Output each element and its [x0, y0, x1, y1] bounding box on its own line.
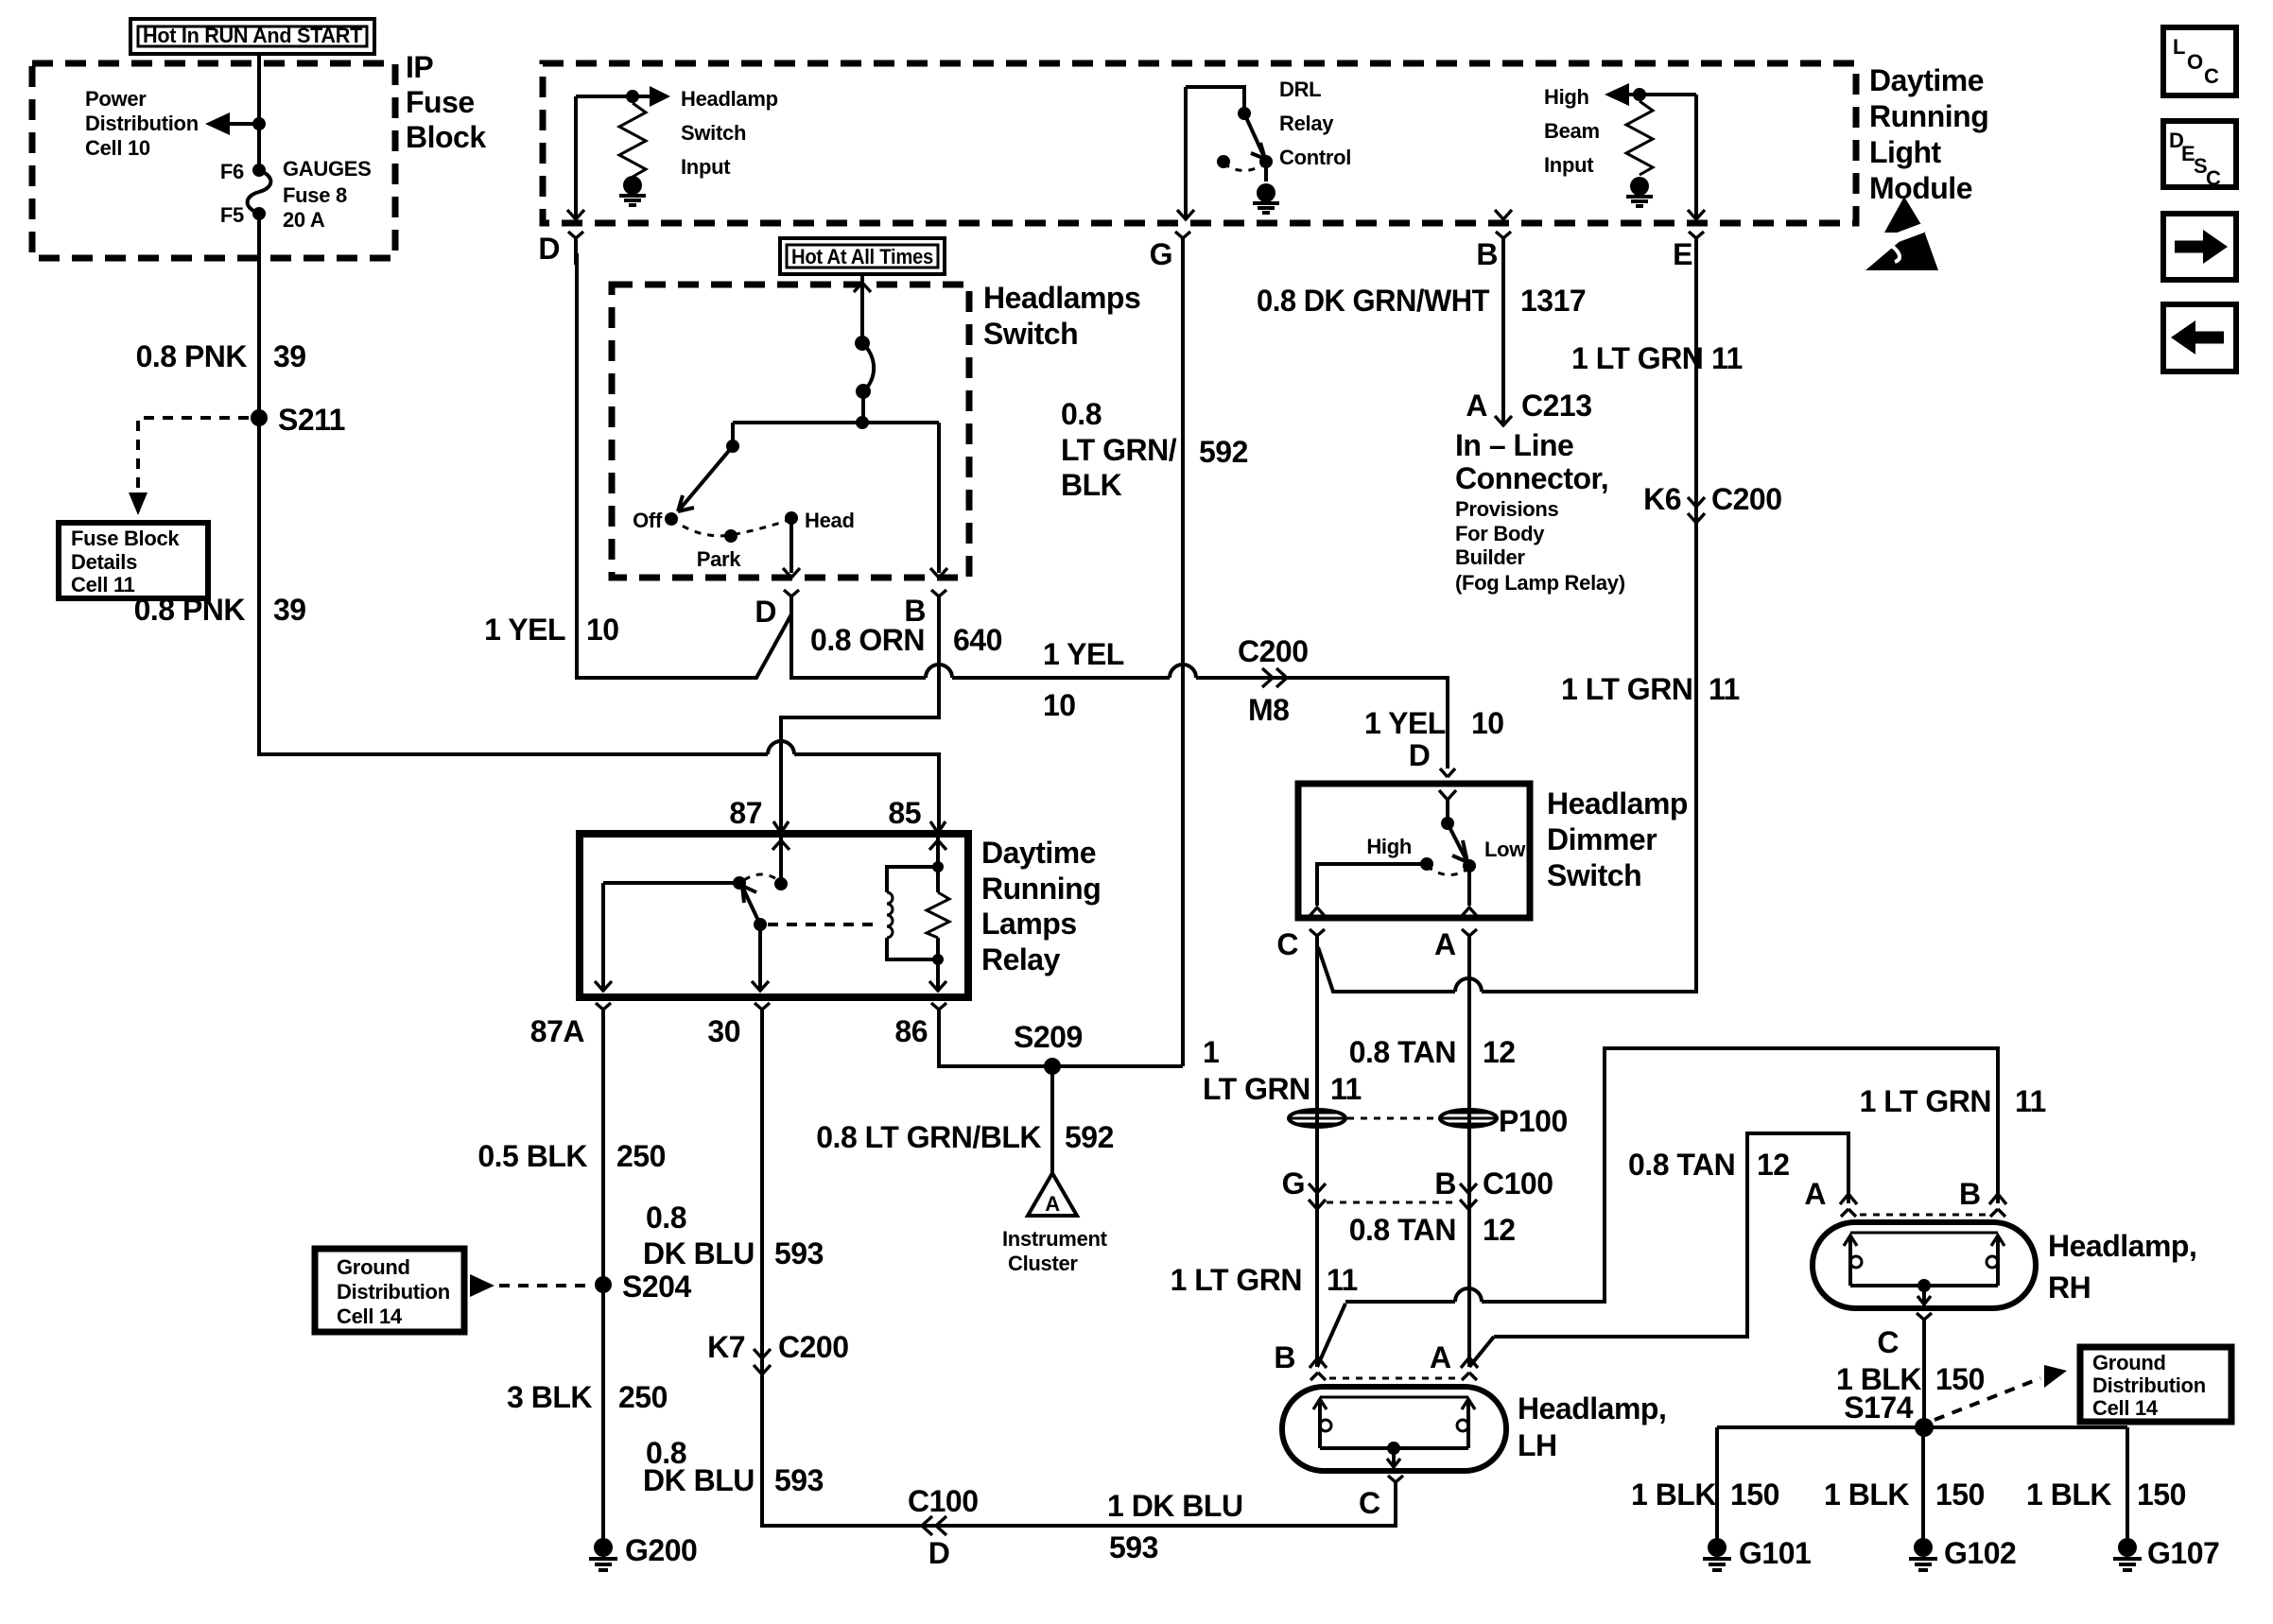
svg-text:85: 85: [888, 796, 921, 830]
svg-text:Block: Block: [406, 120, 486, 154]
svg-text:Input: Input: [681, 155, 731, 179]
svg-text:C200: C200: [1238, 634, 1309, 668]
svg-text:LT GRN: LT GRN: [1203, 1072, 1310, 1106]
svg-text:Switch: Switch: [983, 317, 1078, 351]
svg-text:0.8 TAN: 0.8 TAN: [1349, 1035, 1456, 1069]
svg-text:1 LT GRN: 1 LT GRN: [1860, 1084, 1991, 1118]
svg-text:Relay: Relay: [1279, 112, 1334, 135]
svg-text:LT GRN/: LT GRN/: [1061, 433, 1177, 467]
svg-text:C: C: [1276, 927, 1298, 961]
svg-text:Cell 14: Cell 14: [337, 1304, 403, 1328]
svg-text:C200: C200: [778, 1330, 849, 1364]
svg-text:250: 250: [616, 1139, 666, 1173]
svg-text:592: 592: [1065, 1120, 1114, 1154]
svg-text:30: 30: [707, 1014, 740, 1048]
svg-text:P100: P100: [1499, 1104, 1568, 1138]
svg-text:593: 593: [1109, 1530, 1158, 1564]
svg-text:C: C: [1877, 1325, 1899, 1359]
svg-text:150: 150: [2137, 1477, 2186, 1512]
svg-text:C100: C100: [908, 1484, 979, 1518]
svg-text:Running: Running: [981, 872, 1101, 906]
svg-text:593: 593: [774, 1463, 824, 1497]
svg-text:1317: 1317: [1520, 284, 1586, 318]
svg-text:Distribution: Distribution: [2092, 1373, 2206, 1397]
svg-text:10: 10: [1043, 688, 1076, 722]
svg-text:0.8 ORN: 0.8 ORN: [810, 623, 925, 657]
svg-text:LH: LH: [1518, 1428, 1557, 1462]
svg-text:150: 150: [1935, 1362, 1985, 1396]
svg-text:1 YEL: 1 YEL: [484, 613, 565, 647]
svg-text:Daytime: Daytime: [1869, 63, 1984, 97]
svg-text:G200: G200: [625, 1533, 697, 1567]
svg-text:11: 11: [1330, 1072, 1362, 1106]
svg-text:0.8 TAN: 0.8 TAN: [1628, 1148, 1735, 1182]
svg-text:Fuse Block: Fuse Block: [71, 527, 180, 550]
svg-text:1: 1: [1203, 1035, 1219, 1069]
svg-text:1 BLK: 1 BLK: [2026, 1477, 2111, 1512]
svg-text:11: 11: [1327, 1263, 1358, 1297]
svg-text:12: 12: [1483, 1213, 1516, 1247]
svg-text:Control: Control: [1279, 146, 1351, 169]
svg-text:Distribution: Distribution: [85, 112, 199, 135]
svg-text:S204: S204: [622, 1270, 691, 1304]
svg-text:Lamps: Lamps: [981, 907, 1077, 941]
svg-text:1 LT GRN: 1 LT GRN: [1571, 341, 1703, 375]
svg-text:Headlamp: Headlamp: [681, 87, 778, 111]
svg-text:Fuse: Fuse: [406, 85, 475, 119]
svg-text:D: D: [928, 1536, 950, 1570]
svg-text:G107: G107: [2147, 1536, 2219, 1570]
svg-text:C200: C200: [1711, 482, 1782, 516]
svg-text:Park: Park: [697, 547, 742, 571]
svg-text:11: 11: [2015, 1084, 2046, 1118]
svg-text:Hot At All Times: Hot At All Times: [791, 245, 933, 268]
svg-text:B: B: [1434, 1166, 1456, 1201]
svg-text:0.8 LT GRN/BLK: 0.8 LT GRN/BLK: [816, 1120, 1041, 1154]
svg-text:BLK: BLK: [1061, 468, 1122, 502]
svg-text:12: 12: [1483, 1035, 1516, 1069]
svg-text:Module: Module: [1869, 171, 1972, 205]
svg-text:B: B: [1959, 1177, 1981, 1211]
svg-text:DK BLU: DK BLU: [643, 1236, 755, 1270]
svg-text:High: High: [1544, 85, 1589, 109]
svg-text:86: 86: [894, 1014, 928, 1048]
svg-text:Ground: Ground: [337, 1255, 410, 1279]
svg-text:K7: K7: [707, 1330, 745, 1364]
svg-text:150: 150: [1730, 1477, 1779, 1512]
svg-text:1 BLK: 1 BLK: [1631, 1477, 1716, 1512]
svg-text:Headlamp: Headlamp: [1547, 786, 1688, 821]
svg-text:592: 592: [1199, 435, 1248, 469]
svg-text:S174: S174: [1844, 1391, 1913, 1425]
svg-text:A: A: [1434, 927, 1456, 961]
svg-text:F6: F6: [220, 160, 244, 183]
svg-text:20 A: 20 A: [283, 208, 325, 232]
svg-text:10: 10: [1471, 706, 1504, 740]
svg-text:G: G: [1282, 1166, 1305, 1201]
svg-text:10: 10: [586, 613, 619, 647]
svg-text:D: D: [1409, 738, 1431, 772]
svg-text:A: A: [1466, 389, 1487, 423]
svg-text:S211: S211: [278, 403, 345, 437]
svg-text:D: D: [538, 232, 560, 266]
svg-text:1 DK BLU: 1 DK BLU: [1107, 1489, 1243, 1523]
svg-text:C213: C213: [1521, 389, 1592, 423]
svg-text:A: A: [1430, 1340, 1451, 1374]
svg-text:S209: S209: [1014, 1020, 1083, 1054]
svg-text:593: 593: [774, 1236, 824, 1270]
svg-text:1 YEL: 1 YEL: [1364, 706, 1446, 740]
svg-text:L: L: [2173, 35, 2185, 59]
svg-text:Input: Input: [1544, 153, 1594, 177]
svg-text:39: 39: [273, 593, 306, 627]
svg-text:GAUGES: GAUGES: [283, 157, 372, 181]
svg-text:B: B: [1476, 237, 1498, 271]
svg-text:Ground: Ground: [2092, 1351, 2166, 1374]
svg-text:Low: Low: [1484, 838, 1526, 861]
svg-text:C: C: [1359, 1486, 1380, 1520]
svg-text:Relay: Relay: [981, 942, 1061, 976]
svg-text:39: 39: [273, 339, 306, 373]
svg-text:Instrument: Instrument: [1002, 1227, 1108, 1251]
svg-text:1 BLK: 1 BLK: [1824, 1477, 1909, 1512]
svg-text:87A: 87A: [530, 1014, 585, 1048]
svg-text:Running: Running: [1869, 99, 1988, 133]
svg-text:0.5 BLK: 0.5 BLK: [477, 1139, 587, 1173]
svg-text:Builder: Builder: [1455, 545, 1525, 569]
svg-text:In – Line: In – Line: [1455, 428, 1573, 462]
svg-text:F5: F5: [220, 203, 244, 227]
svg-text:K6: K6: [1643, 482, 1681, 516]
svg-text:Hot In RUN And START: Hot In RUN And START: [143, 24, 363, 47]
svg-text:1 LT GRN: 1 LT GRN: [1561, 672, 1692, 706]
svg-text:Cluster: Cluster: [1008, 1252, 1078, 1275]
svg-text:640: 640: [953, 623, 1002, 657]
svg-text:Cell 11: Cell 11: [71, 573, 135, 596]
svg-text:For Body: For Body: [1455, 522, 1545, 545]
svg-text:0.8 PNK: 0.8 PNK: [134, 593, 246, 627]
svg-text:Cell 14: Cell 14: [2092, 1396, 2159, 1420]
svg-text:Switch: Switch: [1547, 858, 1641, 892]
svg-text:0.8 PNK: 0.8 PNK: [136, 339, 248, 373]
svg-text:O: O: [2187, 50, 2203, 74]
svg-text:11: 11: [1709, 672, 1740, 706]
svg-text:0.8: 0.8: [1061, 397, 1102, 431]
svg-text:M8: M8: [1248, 693, 1289, 727]
svg-text:A: A: [1804, 1177, 1826, 1211]
svg-text:Switch: Switch: [681, 121, 746, 145]
svg-text:Power: Power: [85, 87, 147, 111]
svg-text:Light: Light: [1869, 135, 1942, 169]
svg-text:Headlamp,: Headlamp,: [2048, 1229, 2196, 1263]
svg-text:Cell 10: Cell 10: [85, 136, 150, 160]
svg-text:Connector,: Connector,: [1455, 461, 1608, 495]
svg-text:G102: G102: [1944, 1536, 2016, 1570]
svg-text:G: G: [1150, 237, 1172, 271]
svg-text:DRL: DRL: [1279, 78, 1321, 101]
svg-text:0.8: 0.8: [646, 1201, 686, 1235]
svg-text:250: 250: [618, 1380, 668, 1414]
svg-text:C: C: [2206, 166, 2221, 190]
svg-text:12: 12: [1757, 1148, 1790, 1182]
svg-text:1 YEL: 1 YEL: [1043, 637, 1124, 671]
svg-text:150: 150: [1935, 1477, 1985, 1512]
svg-text:87: 87: [729, 796, 762, 830]
svg-text:Provisions: Provisions: [1455, 497, 1559, 521]
svg-text:A: A: [1045, 1192, 1060, 1216]
svg-text:3 BLK: 3 BLK: [507, 1380, 592, 1414]
svg-text:0.8 DK GRN/WHT: 0.8 DK GRN/WHT: [1257, 284, 1490, 318]
svg-text:RH: RH: [2048, 1270, 2091, 1304]
svg-text:Beam: Beam: [1544, 119, 1600, 143]
svg-text:Dimmer: Dimmer: [1547, 822, 1657, 856]
svg-text:B: B: [1274, 1340, 1295, 1374]
svg-text:IP: IP: [406, 50, 433, 84]
svg-text:Headlamps: Headlamps: [983, 281, 1140, 315]
svg-text:C: C: [2204, 64, 2219, 88]
svg-text:D: D: [755, 595, 776, 629]
svg-text:1 LT GRN: 1 LT GRN: [1171, 1263, 1302, 1297]
svg-text:Fuse 8: Fuse 8: [283, 183, 347, 207]
svg-text:G101: G101: [1739, 1536, 1811, 1570]
svg-text:Daytime: Daytime: [981, 836, 1096, 870]
svg-text:Headlamp,: Headlamp,: [1518, 1391, 1666, 1425]
svg-text:High: High: [1366, 835, 1412, 858]
svg-text:0.8 TAN: 0.8 TAN: [1349, 1213, 1456, 1247]
svg-text:Off: Off: [633, 509, 663, 532]
svg-text:C100: C100: [1483, 1166, 1553, 1201]
svg-text:E: E: [1673, 237, 1692, 271]
svg-text:DK BLU: DK BLU: [643, 1463, 755, 1497]
svg-text:Details: Details: [71, 550, 137, 574]
svg-text:Head: Head: [805, 509, 855, 532]
svg-text:(Fog Lamp Relay): (Fog Lamp Relay): [1455, 571, 1625, 595]
svg-text:11: 11: [1711, 341, 1743, 375]
svg-text:Distribution: Distribution: [337, 1280, 450, 1304]
